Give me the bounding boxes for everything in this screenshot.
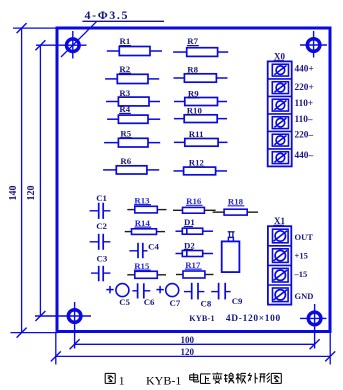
svg-text:440–: 440–: [295, 151, 314, 161]
svg-text:C7: C7: [170, 298, 181, 308]
svg-text:R11: R11: [189, 129, 204, 139]
svg-text:X0: X0: [274, 51, 285, 61]
svg-text:R15: R15: [134, 261, 150, 271]
svg-text:R3: R3: [119, 88, 130, 98]
svg-text:R9: R9: [188, 89, 199, 99]
svg-text:120: 120: [26, 186, 37, 201]
svg-text:C5: C5: [119, 297, 130, 307]
svg-text:GND: GND: [295, 291, 314, 301]
svg-text:OUT: OUT: [295, 232, 314, 242]
svg-text:+15: +15: [295, 251, 308, 261]
svg-text:R18: R18: [228, 197, 244, 207]
svg-text:C9: C9: [232, 296, 243, 306]
svg-text:100: 100: [181, 335, 195, 345]
svg-text:140: 140: [8, 186, 19, 201]
svg-text:KYB-1: KYB-1: [189, 314, 215, 323]
svg-text:220–: 220–: [295, 130, 314, 140]
svg-text:4D-120×100: 4D-120×100: [226, 314, 281, 324]
svg-text:C4: C4: [148, 241, 159, 251]
svg-text:220+: 220+: [295, 83, 314, 93]
svg-text:R17: R17: [185, 260, 201, 270]
svg-text:C1: C1: [96, 193, 107, 203]
svg-text:440+: 440+: [295, 65, 314, 75]
svg-text:C6: C6: [144, 297, 155, 307]
svg-text:110–: 110–: [295, 115, 313, 125]
svg-text:R4: R4: [119, 104, 130, 114]
svg-text:R5: R5: [120, 128, 131, 138]
svg-text:R12: R12: [189, 158, 205, 168]
svg-text:R14: R14: [135, 218, 151, 228]
svg-text:D1: D1: [184, 217, 195, 227]
svg-text:KYB-1: KYB-1: [146, 373, 181, 387]
svg-text:R13: R13: [134, 195, 150, 205]
svg-text:C2: C2: [96, 221, 107, 231]
svg-text:C3: C3: [97, 254, 108, 264]
svg-text:1: 1: [119, 373, 125, 387]
svg-text:R10: R10: [187, 106, 203, 116]
svg-text:D2: D2: [184, 240, 195, 250]
svg-text:R1: R1: [120, 36, 131, 46]
svg-text:4-Φ3.5: 4-Φ3.5: [85, 8, 130, 22]
svg-text:R6: R6: [120, 156, 131, 166]
svg-text:R2: R2: [119, 64, 130, 74]
svg-text:R16: R16: [186, 196, 202, 206]
svg-text:–15: –15: [294, 269, 308, 279]
svg-text:R7: R7: [187, 36, 198, 46]
svg-text:C8: C8: [201, 298, 212, 308]
svg-text:110+: 110+: [295, 99, 314, 109]
svg-text:120: 120: [181, 347, 195, 357]
svg-text:R8: R8: [187, 65, 198, 75]
svg-text:X1: X1: [274, 216, 285, 226]
